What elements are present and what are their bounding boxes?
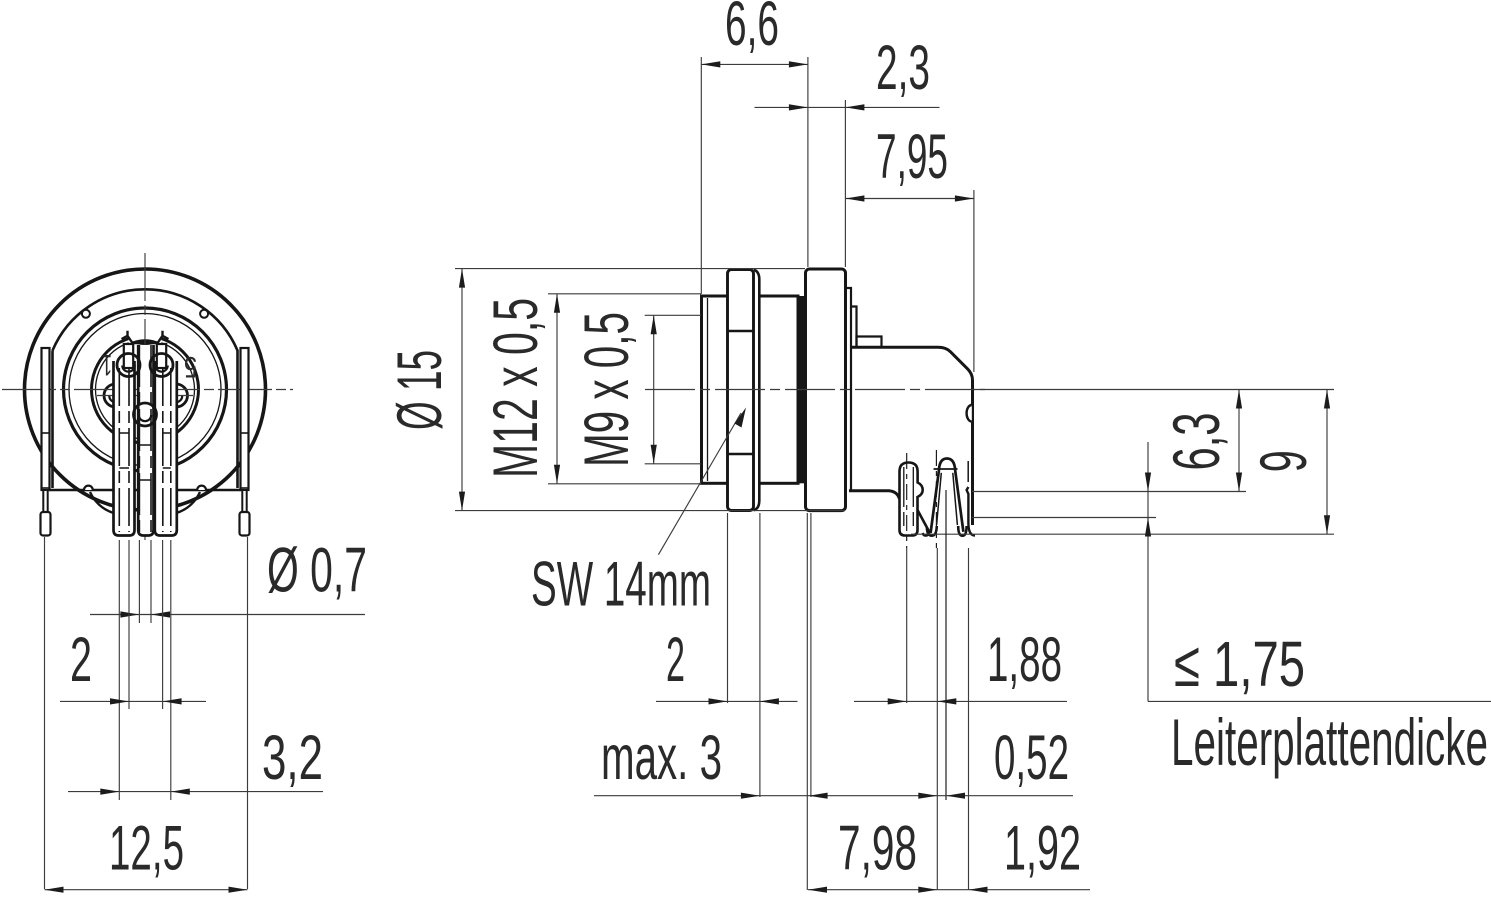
hole row centerline (97, 395, 193, 397)
dimension 1,92 (969, 814, 1082, 893)
dimension diameter 0,7 (90, 536, 367, 618)
dimension 7,98 (808, 814, 1090, 893)
contact hole 4 (165, 384, 188, 407)
svg-text:7,95: 7,95 (876, 122, 948, 192)
step 1 behind flange (846, 288, 852, 492)
flange outer circle (25, 269, 266, 510)
side solder leg 1 (900, 463, 923, 536)
spring arm right (170, 492, 200, 515)
contact hole 1 (117, 354, 140, 377)
pin edge lines inside legs (118, 368, 120, 532)
outer leg left front view (42, 348, 50, 490)
keyway cutout (129, 327, 162, 344)
legs bottom line (911, 533, 1334, 535)
svg-text:3,2: 3,2 (262, 723, 323, 793)
svg-text:Ø 15: Ø 15 (385, 350, 455, 430)
side view connector (645, 269, 1334, 548)
dimension 7,95 (845, 122, 974, 372)
dimension M12 x 0,5 (481, 294, 701, 484)
dimension M9 x 0,5 (572, 312, 701, 467)
svg-text:Leiterplattendicke: Leiterplattendicke (1171, 705, 1488, 779)
dimension 6,3 (1159, 390, 1242, 492)
front view vertical centerline (144, 253, 146, 540)
insert circle (92, 336, 199, 443)
M12 thread cylinder (702, 296, 799, 483)
nut facet line top (728, 330, 754, 332)
mounting flange (806, 269, 846, 511)
front view horizontal centerline (2, 389, 293, 391)
housing bottom edge (849, 491, 900, 499)
dimension 12,5 (45, 814, 248, 893)
nut front facet edge (753, 271, 755, 509)
contact hole 3 (104, 384, 127, 407)
leg 2 inner wall lines (937, 473, 942, 525)
ring notch right (200, 310, 208, 318)
svg-text:6,3: 6,3 (1159, 413, 1233, 471)
svg-text:M12 x 0,5: M12 x 0,5 (481, 298, 551, 478)
rear housing body outline (851, 347, 973, 525)
extension lines side view bottom (728, 490, 969, 890)
dimension 2 left view (60, 625, 206, 705)
dimension 6,6 (701, 0, 808, 294)
small tab on housing top (857, 337, 882, 348)
svg-text:Ø 0,7: Ø 0,7 (267, 536, 367, 606)
svg-text:1,88: 1,88 (987, 625, 1062, 695)
contact hole 2 (150, 354, 173, 377)
dimension 0,52 (858, 723, 1073, 799)
front view connector (2, 253, 293, 540)
dimension max. 3 (594, 723, 858, 799)
svg-text:1,92: 1,92 (1004, 814, 1081, 884)
spring bump left (84, 486, 93, 490)
dimension diameter 15 (385, 269, 845, 511)
pin stubs above top holes (124, 344, 133, 368)
svg-text:12,5: 12,5 (109, 814, 184, 884)
PCB bottom line (972, 517, 1156, 519)
dimension PCB thickness (1145, 442, 1491, 779)
crimp ticks on legs (119, 432, 129, 434)
leg 1 zigzag (918, 510, 930, 535)
leg 3 dashes (967, 461, 969, 482)
hex nut SW14 silhouette (754, 270, 760, 510)
svg-text:2: 2 (70, 625, 92, 695)
svg-text:7,98: 7,98 (838, 814, 917, 884)
svg-text:1: 1 (102, 348, 112, 381)
dimension 9 (1246, 390, 1330, 535)
retaining ring with flats (53, 289, 238, 488)
svg-text:M9 x 0,5: M9 x 0,5 (572, 312, 642, 467)
svg-text:5: 5 (184, 350, 197, 383)
leg centerline 2 (935, 450, 937, 548)
key slot lens (134, 340, 157, 344)
side solder leg 2 (931, 459, 964, 534)
nut facet line bottom (728, 453, 754, 455)
dimension 2,3 (755, 33, 940, 267)
outer leg right front view (241, 348, 249, 490)
ring notch left (82, 310, 90, 318)
step 2 behind flange (851, 307, 857, 348)
leader SW 14mm (531, 408, 746, 620)
solder leg 3 front view (155, 361, 177, 536)
dimension 2 side view (656, 625, 798, 705)
dimension 3,2 (68, 723, 323, 795)
solder leg 2 front view (138, 345, 153, 536)
M9 thread outer circle (64, 308, 227, 471)
svg-text:0,52: 0,52 (994, 723, 1069, 793)
leg 2 cross tick (934, 468, 958, 470)
leg 1 inner wall lines (903, 467, 905, 531)
svg-text:2,3: 2,3 (876, 33, 930, 103)
flange chord line (49, 489, 241, 491)
bump on housing right edge (967, 405, 972, 422)
PCB top line (972, 491, 1246, 493)
spring arm left (90, 492, 120, 515)
svg-text:2: 2 (666, 625, 685, 695)
spring bump right (197, 486, 206, 490)
thread chamfer line (707, 298, 709, 481)
side view centerline (645, 389, 985, 391)
svg-text:≤ 1,75: ≤ 1,75 (1174, 628, 1305, 700)
svg-text:SW 14mm: SW 14mm (531, 550, 711, 620)
dimension 1,88 (854, 625, 1067, 705)
svg-text:6,6: 6,6 (725, 0, 779, 59)
insert inner thin circle (96, 340, 195, 439)
solder leg 1 front view (114, 361, 135, 536)
M9 thread inner circle (69, 314, 221, 466)
extension lines left view pins (45, 537, 248, 889)
svg-text:9: 9 (1246, 450, 1320, 472)
gasket seal (798, 296, 804, 483)
leg centerline 1 (906, 453, 908, 548)
side solder leg 3 (967, 487, 975, 536)
svg-text:max. 3: max. 3 (601, 723, 722, 793)
contact hole 5 (134, 403, 157, 426)
leg 2 feet (927, 526, 937, 536)
